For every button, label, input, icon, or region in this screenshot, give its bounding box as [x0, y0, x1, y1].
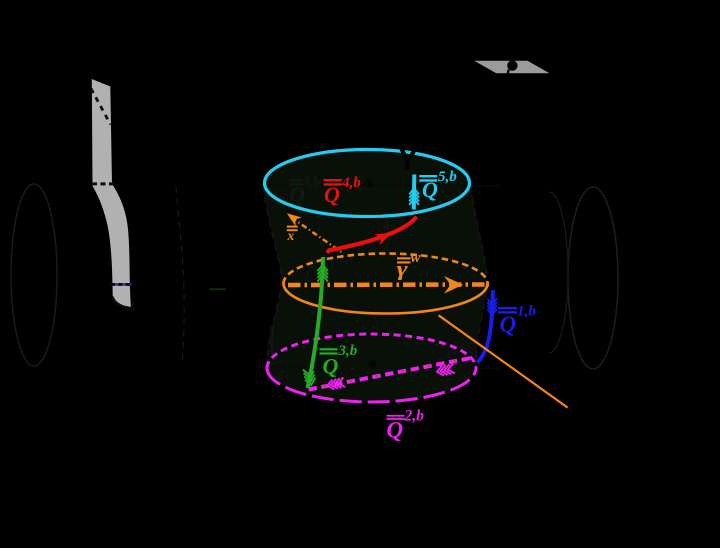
- green bottom chevron arrowhead: [303, 367, 317, 385]
- inner seam curve d: [374, 317, 377, 333]
- svg-text:3,b: 3,b: [302, 175, 321, 190]
- green top chevron arrowhead: [318, 265, 328, 282]
- inner cylinder tint fill: [263, 151, 488, 402]
- blue curve Q1: [478, 290, 493, 363]
- gray parallelogram: [474, 61, 549, 74]
- svg-text:5,b: 5,b: [438, 169, 457, 185]
- inner seam curve a: [349, 208, 351, 216]
- magenta dashed diagonal line Q2: [309, 358, 474, 390]
- big cylinder top edge line: [258, 185, 500, 187]
- big cylinder right end ellipse: [568, 187, 618, 369]
- orange label gamma w: [397, 250, 422, 281]
- black marked point on parallelogram: [507, 60, 517, 70]
- gray strip: [92, 79, 131, 307]
- green curve Q3: [308, 257, 324, 388]
- dark green bar: [210, 288, 226, 290]
- svg-text:Q: Q: [324, 182, 340, 207]
- marked point in cyan disk: [365, 179, 373, 187]
- cyan chevron arrowhead: [409, 188, 419, 205]
- svg-text:3,b: 3,b: [338, 343, 358, 359]
- red curve Q4: [327, 217, 416, 253]
- strip middle dashed line (black): [92, 182, 115, 185]
- middle cylinder left side line: [263, 185, 281, 368]
- marked point tail: [507, 70, 508, 77]
- right inner front arc: [549, 192, 568, 353]
- orange dots on magenta dashed line: [324, 360, 456, 387]
- svg-text:2,b: 2,b: [404, 408, 425, 425]
- orange ellipse bottom solid arc: [284, 284, 488, 314]
- orange ellipse top dashed arc: [284, 254, 488, 284]
- cyan arrow Q5: [412, 175, 417, 210]
- big cylinder bottom edge line: [258, 367, 500, 369]
- orange label x-bar: [287, 226, 298, 243]
- svg-text:Q: Q: [500, 312, 517, 337]
- black seam wedge below cyan arrow: [405, 212, 419, 226]
- magenta left chevron arrowhead 1: [327, 377, 345, 389]
- black label Q3b (back): [289, 175, 320, 207]
- orange gamma arrowhead: [444, 276, 463, 294]
- orange x arrowhead: [287, 213, 302, 226]
- magenta ellipse bottom dashed arc: [267, 368, 476, 402]
- strip top dashed diagonal (black): [91, 89, 111, 125]
- middle cylinder right side line: [471, 185, 487, 368]
- svg-text:w: w: [411, 250, 422, 266]
- orange long diagonal line: [439, 315, 568, 407]
- magenta left chevron arrowhead 2: [437, 364, 455, 376]
- orange gamma^w thick dashed line: [288, 282, 489, 287]
- strip dark bottom-right edge: [112, 297, 132, 310]
- green label Q3b: [320, 343, 358, 379]
- cyan ellipse (top boundary circle): [265, 150, 470, 217]
- marked point in magenta disk: [369, 360, 377, 368]
- svg-text:4,b: 4,b: [341, 175, 361, 191]
- magenta ellipse top dashed arc: [267, 334, 476, 368]
- faint left inner curve: [176, 186, 184, 366]
- red label Q4b: [324, 175, 362, 207]
- svg-text:1,b: 1,b: [517, 304, 536, 320]
- blue chevron arrowhead (down): [487, 299, 497, 315]
- blue label Q1b: [498, 304, 536, 338]
- black seam notch crossing cyan ellipse: [402, 149, 415, 171]
- svg-text:x: x: [287, 228, 295, 243]
- inner seam curve c: [272, 324, 274, 362]
- svg-text:Q: Q: [387, 418, 404, 443]
- cyan label Q5b: [419, 169, 457, 202]
- red arrowhead: [375, 233, 392, 245]
- inner seam curve b: [385, 215, 388, 250]
- strip bottom dashed line (navy): [111, 283, 132, 286]
- svg-text:Q: Q: [422, 177, 438, 202]
- magenta label Q2b: [387, 408, 425, 443]
- orange dash-dot pointer line to x: [292, 218, 344, 254]
- big cylinder left end ellipse: [11, 184, 57, 366]
- svg-text:Q: Q: [323, 354, 339, 379]
- svg-text:γ: γ: [397, 258, 409, 281]
